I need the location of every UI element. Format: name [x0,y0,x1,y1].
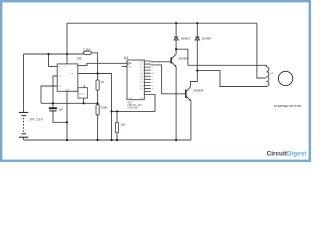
diode D1 1N4007 [174,37,179,40]
wire U1 threshold pin to cap node [53,76,57,103]
battery B1 plates [19,112,29,137]
control cap box stubs [83,85,86,103]
wire R4 10K column [116,111,118,140]
resistor R4 10K vertical body [115,122,118,133]
IC U1 555 timer box [57,64,78,91]
svg-text:2N3904: 2N3904 [178,56,189,60]
svg-text:TR: TR [58,86,61,88]
wire bottom ground rail [24,139,191,141]
wire R1 2.2M left lead [82,53,84,54]
wire Q1 collector net to motor coil top [188,65,267,67]
svg-text:2.2M: 2.2M [83,48,90,52]
U2 right pin stubs comb [144,61,151,95]
wire trigger/cap net y103.3 [41,102,98,104]
wire left VCC drop x67 [66,23,68,64]
svg-text:1K: 1K [101,80,104,84]
svg-text:GND: GND [65,89,70,91]
svg-text:10K: 10K [121,123,126,127]
wire R1 2.2M right lead and resistor column x98.8 [91,53,97,140]
transistor Q2 2N3904 [186,87,191,101]
svg-text:VSS=GND: VSS=GND [127,108,138,110]
wire Q2 emitter to ground rail [190,101,192,140]
wire Q2 collector net to motor coil bottom [197,71,266,87]
control capacitor value box 1E-06 [78,88,88,98]
wire capacitor C1 leads [53,103,67,122]
wire U1 ground pin to rail [66,91,68,140]
U2 clock pin arrow [128,62,131,65]
wire U1 reset pin from rail [49,54,58,66]
wire diode D1 column [175,23,177,49]
wire +V right drop to motor center tap [257,23,266,78]
IC U2 4017 counter box [127,60,144,100]
wire D2 to Q2 collector [190,71,197,87]
blue frame border [1,1,310,161]
svg-text:1E-06: 1E-06 [79,93,85,95]
capacitor C1 1uF electrolytic [49,107,57,109]
wire net y111.5 to U2 pin [112,95,156,112]
resistor R1 2.2M horizontal body [84,51,91,54]
wire VCC rail y54.5 [24,53,84,55]
wire diode D2 column [196,23,198,70]
svg-text:9V-12V: 9V-12V [30,118,44,122]
wire battery column [23,54,25,140]
svg-text:VSS: VSS [129,98,134,100]
wire Q1 collector link [176,49,188,65]
wire Q1 emitter to ground rail [175,67,177,140]
wire U1 discharge to x111.3 column [78,74,112,141]
svg-text:220K: 220K [101,105,107,109]
wire U2 output to Q1 base [151,61,171,63]
U1 pin name smudges [58,66,77,92]
U2 right pin labels [129,61,155,100]
svg-text:U2: U2 [124,56,129,60]
transistor Q1 2N3904 [171,49,176,67]
svg-text:TH: TH [58,76,61,78]
wire top positive rail [67,22,257,24]
svg-text:1N4007: 1N4007 [181,36,191,40]
wire U2 output to Q2 base [151,65,186,94]
wire U1 output to U2 clock [78,63,127,65]
svg-text:1uF: 1uF [58,108,63,112]
U2 part info text [127,103,142,110]
stepper motor body circle [278,71,292,85]
svg-text:2N3904: 2N3904 [193,89,204,93]
wire U2 enable stub [122,66,127,68]
svg-text:U1: U1 [77,56,82,60]
resistor R2 1K vertical body [96,80,99,91]
svg-text:STEPPER MOTOR: STEPPER MOTOR [274,104,302,108]
motor winding coil L1 [267,67,269,86]
wire U1 trigger pin loop to cap node [41,86,57,103]
resistor R3 220K vertical body [96,105,99,116]
junction dots [47,22,198,141]
svg-text:CLK: CLK [129,63,134,65]
svg-text:1N4007: 1N4007 [202,36,212,40]
diode D2 1N4007 [195,37,200,40]
svg-text:CircuitDigest: CircuitDigest [267,150,308,157]
